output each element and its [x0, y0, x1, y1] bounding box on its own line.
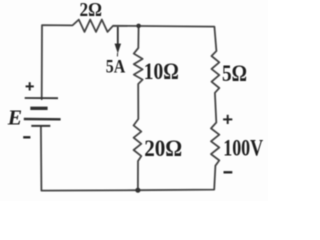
- svg-text:20Ω: 20Ω: [144, 136, 182, 161]
- svg-text:100V: 100V: [223, 135, 263, 160]
- svg-text:5Ω: 5Ω: [222, 61, 247, 86]
- svg-text:2Ω: 2Ω: [80, 0, 103, 21]
- svg-text:10Ω: 10Ω: [144, 59, 179, 84]
- svg-text:E: E: [7, 105, 22, 129]
- svg-text:5A: 5A: [106, 57, 126, 78]
